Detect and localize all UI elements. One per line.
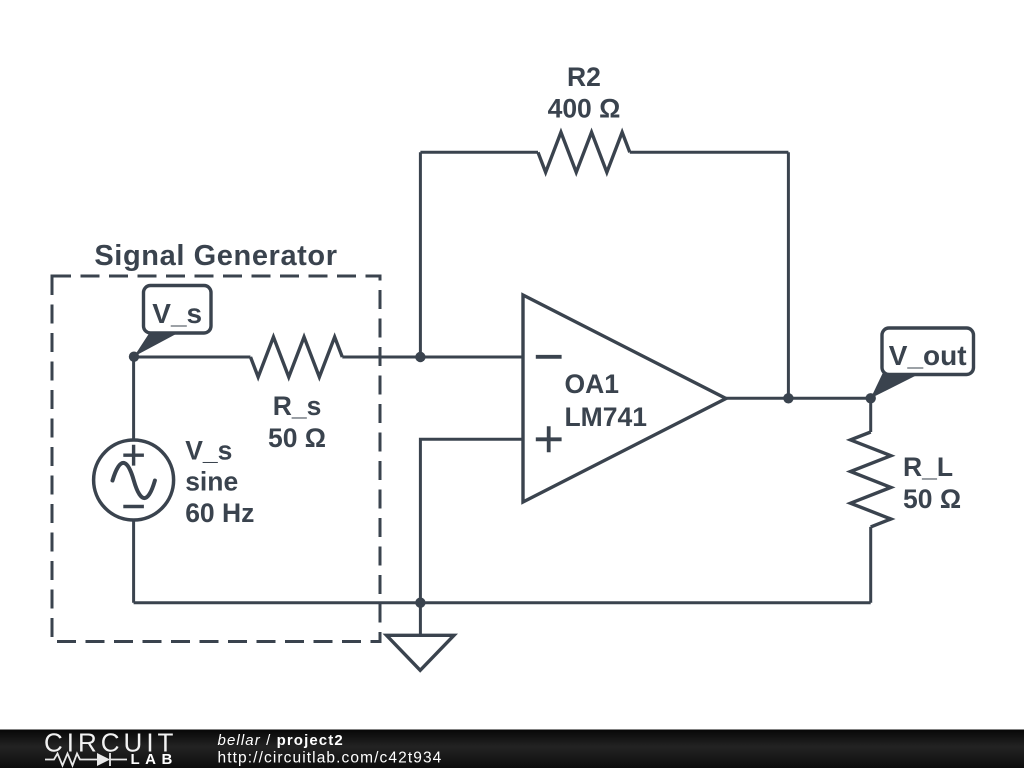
resistor R2 xyxy=(538,132,630,172)
wire V_s top lead xyxy=(132,357,135,441)
svg-text:Signal Generator: Signal Generator xyxy=(94,240,337,272)
wire top horizontal left of R2 xyxy=(420,151,538,154)
op-amp plus input mark xyxy=(536,426,562,452)
plus mark inside V_s xyxy=(123,445,144,466)
wire top-left vertical (node A to R2 left) xyxy=(419,152,422,357)
wire plus-input row and vertical drop xyxy=(420,439,523,602)
svg-text:V_s: V_s xyxy=(185,435,232,465)
resistor R_s xyxy=(251,337,343,377)
svg-text:R_L: R_L xyxy=(903,452,953,482)
flag pointer V_s xyxy=(134,334,177,357)
sine symbol inside V_s xyxy=(113,463,155,498)
svg-text:V_s: V_s xyxy=(152,298,202,329)
svg-text:OA1: OA1 xyxy=(565,369,620,399)
wire feedback vertical xyxy=(787,152,790,398)
svg-text:50 Ω: 50 Ω xyxy=(903,484,961,514)
svg-text:LAB: LAB xyxy=(131,751,178,768)
op-amp minus input mark xyxy=(536,355,562,359)
resistor R_L xyxy=(851,432,891,527)
logo schematic squiggle (resistor + diode) xyxy=(45,754,97,766)
flag box V_s xyxy=(144,286,212,334)
node dot at V_s flag xyxy=(129,352,139,362)
wire top horizontal right of R2 xyxy=(630,151,789,154)
ground stem xyxy=(419,603,422,636)
wire op-amp output row xyxy=(726,397,871,400)
ground symbol xyxy=(387,635,455,670)
node dot ground junction xyxy=(415,598,425,608)
flag pointer V_out xyxy=(871,373,922,399)
svg-text:V_out: V_out xyxy=(889,340,967,371)
node dot V_out junction xyxy=(866,393,876,403)
node dot minus-input junction xyxy=(415,352,425,362)
node dot feedback junction xyxy=(783,393,793,403)
svg-text:R_s: R_s xyxy=(273,391,322,421)
svg-text:bellar / project2: bellar / project2 xyxy=(218,732,344,749)
svg-text:LM741: LM741 xyxy=(565,402,647,432)
voltage source V_s (circle) xyxy=(94,440,174,520)
wire R_L bottom lead xyxy=(869,527,872,603)
wire minus-input row right (R_s to op-amp) xyxy=(342,356,523,359)
svg-text:400 Ω: 400 Ω xyxy=(548,93,621,123)
svg-text:R2: R2 xyxy=(567,62,601,92)
wire minus-input row left (V_s to R_s) xyxy=(134,356,251,359)
svg-text:sine: sine xyxy=(185,467,238,497)
minus mark inside V_s xyxy=(123,505,144,508)
svg-text:50 Ω: 50 Ω xyxy=(268,423,326,453)
box Signal Generator (dashed) xyxy=(52,276,380,642)
wire bottom horizontal xyxy=(134,601,871,604)
wire R_L top lead xyxy=(869,398,872,432)
op-amp OA1 triangle xyxy=(523,295,726,502)
flag box V_out xyxy=(882,328,974,375)
footer bar xyxy=(0,730,1024,768)
svg-text:http://circuitlab.com/c42t934: http://circuitlab.com/c42t934 xyxy=(218,749,443,766)
wire V_s bottom lead xyxy=(132,520,135,603)
svg-text:60 Hz: 60 Hz xyxy=(185,498,254,528)
